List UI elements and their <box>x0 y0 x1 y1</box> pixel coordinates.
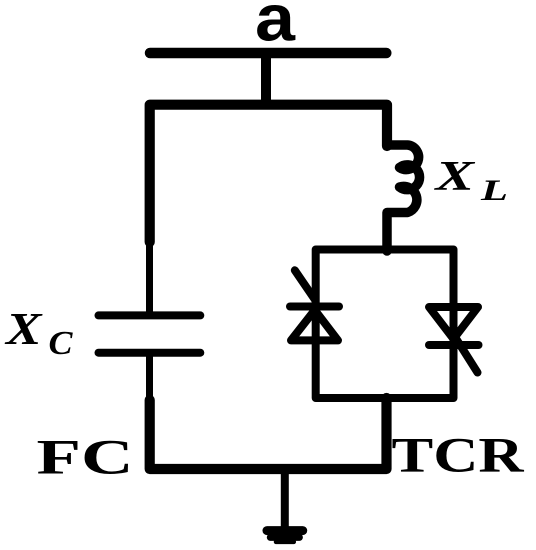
svg-text:FC: FC <box>37 429 134 485</box>
svg-text:X: X <box>4 303 43 354</box>
svg-text:a: a <box>255 0 296 55</box>
capacitor XC bottom plate <box>99 349 201 357</box>
thyristor left: triangle (points up) <box>291 310 338 340</box>
thyristor right: cathode bar <box>429 341 479 349</box>
ground bars <box>267 526 303 535</box>
wire: bottom rail with left riser and TCR riser <box>150 398 387 469</box>
bus bar (node a) <box>150 48 386 59</box>
label XC <box>4 303 73 362</box>
inductor XL coil <box>387 145 420 251</box>
thyristor right: triangle (points down) <box>429 307 478 339</box>
wire: thin segment below capacitor <box>146 353 153 404</box>
svg-text:C: C <box>49 325 73 362</box>
capacitor XC top plate <box>99 311 201 319</box>
thyristor right: gate slash <box>456 339 478 373</box>
wire: top rail, left branch drop, right branch drop into inductor <box>150 105 387 242</box>
thyristor left: gate slash <box>295 270 316 300</box>
svg-text:L: L <box>480 174 508 207</box>
ground stem <box>281 469 289 527</box>
wire: stub from bus bar down to rail <box>261 53 271 105</box>
thyristor left: cathode bar <box>290 303 339 311</box>
label XL <box>433 154 508 207</box>
wire: thin segment above capacitor <box>146 239 153 314</box>
TCR box <box>316 250 454 399</box>
svg-text:TCR: TCR <box>392 427 525 483</box>
svg-text:X: X <box>433 154 476 200</box>
